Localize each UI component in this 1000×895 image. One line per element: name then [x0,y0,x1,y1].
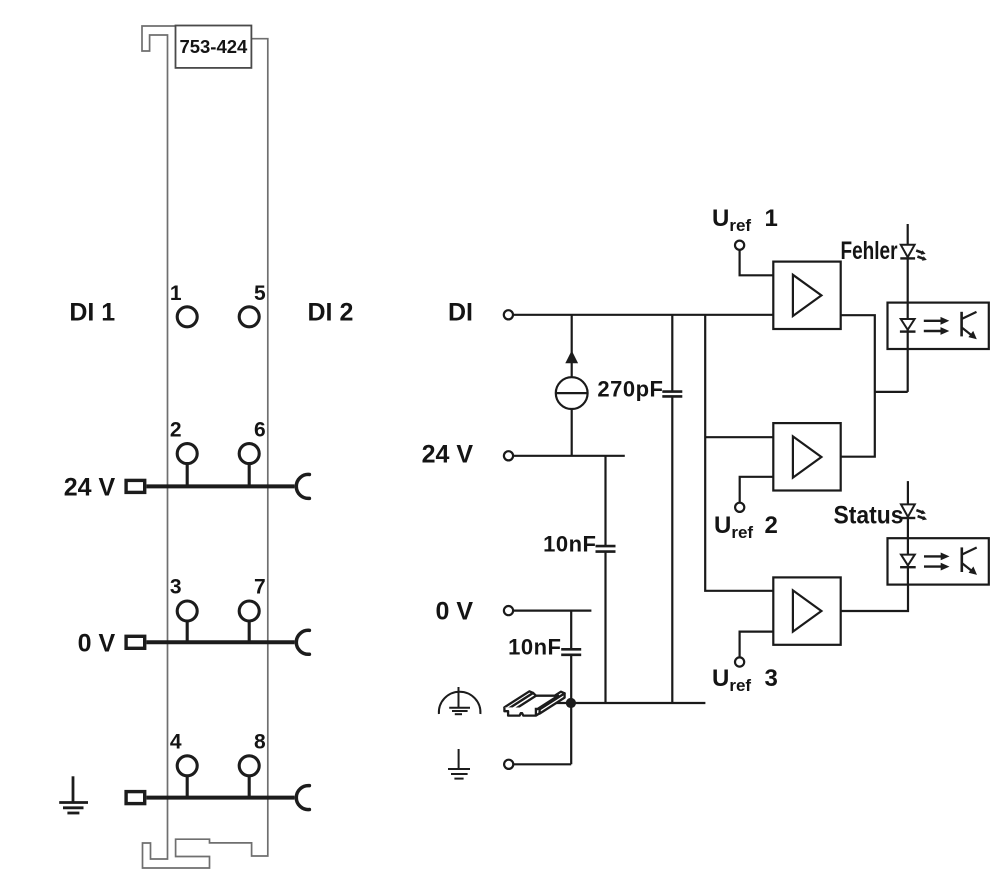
svg-text:Status: Status [834,502,904,530]
svg-text:DI 2: DI 2 [308,299,354,327]
svg-text:DI 1: DI 1 [69,299,115,327]
svg-text:7: 7 [254,576,266,599]
svg-text:Uref: Uref [712,205,751,235]
svg-text:1: 1 [170,282,182,305]
svg-text:Uref: Uref [712,665,751,695]
svg-text:3: 3 [170,576,182,599]
svg-text:8: 8 [254,731,266,754]
svg-text:0 V: 0 V [78,629,116,657]
svg-text:24 V: 24 V [64,473,116,501]
svg-text:0 V: 0 V [435,598,473,626]
svg-text:6: 6 [254,419,266,442]
svg-text:5: 5 [254,282,266,305]
svg-text:10nF: 10nF [508,635,561,660]
svg-text:DI: DI [448,299,473,327]
svg-text:3: 3 [765,665,778,692]
svg-text:24 V: 24 V [422,441,474,469]
svg-text:270pF: 270pF [597,376,663,401]
svg-text:753-424: 753-424 [179,36,248,57]
svg-text:4: 4 [170,731,182,754]
svg-text:2: 2 [170,419,182,442]
svg-text:1: 1 [765,205,778,232]
svg-text:Uref: Uref [714,512,753,542]
svg-text:Fehler: Fehler [841,237,898,265]
svg-text:10nF: 10nF [543,531,596,556]
svg-text:2: 2 [765,512,778,539]
